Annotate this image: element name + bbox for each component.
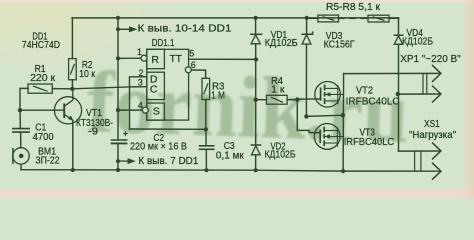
junction node R4 left	[254, 98, 258, 102]
arrowhead pin7	[128, 158, 136, 164]
wire VD1 branch upper	[255, 18, 257, 34]
junction node top rail / VD3	[305, 16, 309, 20]
wire pin 6 to R3	[192, 70, 206, 78]
flip-flop DD1.1 box	[147, 49, 189, 120]
wire top supply rail	[72, 17, 399, 19]
wire VD3 lower lead to mid node	[305, 44, 307, 116]
wire R2 top lead from rail corner	[71, 18, 73, 59]
wire under box to R3/C3 node	[130, 128, 206, 130]
wire R5 box1 left lead	[307, 17, 318, 19]
wire VT3 gate path	[297, 100, 320, 133]
junction node base	[18, 108, 22, 112]
wire drain-source common vertical	[342, 74, 345, 172]
junction node XP1 bottom / VD4	[396, 92, 400, 96]
junction node rail C3	[204, 168, 208, 172]
wire pin 5 output	[189, 58, 256, 60]
junction node rail VD2	[254, 168, 258, 172]
junction node pin7 arrow	[116, 159, 120, 163]
svg-text:ЗП-22: ЗП-22	[35, 156, 59, 167]
svg-text:1 к: 1 к	[271, 85, 285, 96]
wire C1 top lead	[19, 110, 21, 128]
junction node zener bottom	[304, 114, 308, 118]
wire BM1 bottom lead	[20, 164, 22, 170]
svg-text:4: 4	[138, 100, 143, 110]
wire R5 box2 right lead	[389, 17, 399, 19]
connector XS1 bars	[414, 151, 416, 172]
connector XS1 arrow bottom	[432, 163, 441, 180]
zener VD3	[301, 31, 312, 34]
svg-text:-9: -9	[88, 127, 98, 138]
svg-text:0,1 мк: 0,1 мк	[216, 151, 244, 162]
microphone BM1	[13, 148, 29, 164]
svg-text:220 мк × 16 В: 220 мк × 16 В	[130, 142, 187, 153]
wire XP1 top pin	[344, 72, 441, 74]
capacitor C1	[12, 128, 30, 130]
wire XS1 lower pin	[343, 170, 440, 172]
svg-text:КД102Б: КД102Б	[402, 37, 433, 48]
svg-text:TT: TT	[170, 53, 183, 65]
svg-text:2: 2	[139, 68, 144, 78]
junction node rail VT3	[341, 169, 345, 173]
svg-text:ХР1 "~220 В": ХР1 "~220 В"	[400, 54, 461, 65]
wire R4 right lead	[287, 99, 297, 101]
svg-text:IRFBC40LC: IRFBC40LC	[346, 97, 400, 108]
arrowhead 10-14	[129, 26, 137, 32]
junction node pin4 stub	[116, 108, 120, 112]
svg-text:10 к: 10 к	[79, 69, 96, 80]
svg-text:C: C	[150, 84, 158, 96]
capacitor C3	[199, 145, 215, 147]
svg-text:R5-R8 5,1 к: R5-R8 5,1 к	[326, 2, 381, 13]
wire C3 to ground rail	[205, 149, 207, 170]
svg-text:74HC74D: 74HC74D	[22, 40, 60, 51]
junction node collector	[70, 87, 74, 91]
svg-text:6: 6	[191, 60, 196, 70]
resistor R4	[267, 95, 288, 104]
resistor R2	[69, 59, 77, 80]
connector XP1 bars	[422, 74, 424, 95]
wire pin 2 jog	[130, 77, 147, 129]
junction node pin1 stub	[116, 56, 120, 60]
wire ground rail	[21, 170, 343, 171]
wire XS1 top pin	[399, 150, 441, 152]
wire VD4 top lead from rail corner	[398, 18, 400, 35]
junction node R3 C3	[204, 127, 208, 131]
diode VD1	[250, 33, 262, 35]
svg-text:К выв. 7 DD1: К выв. 7 DD1	[138, 156, 198, 167]
svg-text:VT2: VT2	[356, 86, 373, 97]
resistor R5-R8 box 2	[368, 15, 389, 22]
svg-text:К выв. 10-14 DD1: К выв. 10-14 DD1	[138, 24, 232, 35]
wire emitter to ground rail	[72, 120, 74, 170]
svg-text:"Нагрузка": "Нагрузка"	[409, 130, 456, 141]
svg-text:КД102Б: КД102Б	[265, 150, 296, 161]
pin 6 inversion circle	[185, 67, 191, 73]
svg-text:220 к: 220 к	[30, 73, 56, 84]
wire pin 1 stub from bus	[118, 57, 141, 59]
wire R2 bottom lead to collector node	[71, 80, 73, 89]
wire arrow stub K vyv 10-14 DD1	[118, 28, 130, 30]
resistor R1	[28, 84, 52, 93]
svg-text:КД102Б: КД102Б	[265, 38, 298, 49]
junction node pin5 / VD1	[254, 57, 258, 61]
transistor VT3 body	[314, 123, 340, 149]
transistor VT1 body	[54, 97, 81, 124]
svg-text:4700: 4700	[33, 132, 54, 143]
wire R3 bottom to node	[205, 100, 207, 130]
wire node to C3	[205, 129, 207, 145]
svg-text:S: S	[153, 106, 160, 118]
wire VD2 to ground rail	[255, 155, 257, 170]
diode VD2	[251, 144, 262, 146]
connector XP1 arrow bottom	[432, 86, 441, 103]
junction node midpoint	[341, 113, 345, 117]
svg-text:КС156Г: КС156Г	[324, 40, 356, 51]
junction node top rail / bus	[116, 16, 120, 20]
wire R1 right lead	[52, 88, 72, 90]
plus mark of C2	[123, 133, 128, 135]
svg-text:1: 1	[137, 47, 142, 57]
wire V+ bus below C2 to ground rail	[117, 143, 119, 170]
pin 4 inversion circle	[142, 107, 148, 113]
diode VD4	[394, 34, 404, 36]
capacitor C2	[111, 139, 128, 141]
wire VD4 bottom vertical	[398, 44, 400, 151]
resistor R5-R8 box 1	[318, 15, 339, 22]
wire base lead	[20, 109, 64, 111]
svg-text:XS1: XS1	[424, 119, 440, 130]
wire XP1 bottom pin	[398, 93, 441, 95]
wire VT2 gate lead	[297, 98, 320, 100]
wire pin 4 stub from bus	[118, 109, 142, 111]
junction node rail bus	[116, 168, 120, 172]
wire R4 left lead	[256, 99, 267, 101]
svg-text:R: R	[151, 54, 159, 66]
wire VD3 upper lead	[306, 18, 308, 36]
junction node arrow 10-14	[116, 27, 120, 31]
svg-text:1 М: 1 М	[211, 91, 225, 102]
junction node R4 right gates	[295, 97, 299, 101]
svg-text:IRFBC40LC: IRFBC40LC	[344, 137, 395, 148]
connector XS1 arrow top	[432, 142, 441, 159]
svg-text:DD1.1: DD1.1	[152, 38, 175, 49]
wire C1 bottom lead to microphone	[20, 132, 22, 148]
resistor R3	[202, 78, 210, 99]
wire collector to pin 3	[72, 87, 146, 89]
transistor VT2 body	[315, 82, 341, 108]
junction node rail emitter	[71, 168, 75, 172]
junction node top rail / VD1	[254, 16, 258, 20]
wire VD1 to VD2 vertical	[255, 44, 257, 145]
wire pin7 arrow stub	[118, 160, 128, 162]
pin 1 inversion circle	[141, 55, 147, 61]
svg-text:3: 3	[138, 78, 143, 88]
wire midpoint link	[306, 115, 343, 116]
dashed link R5-R8	[339, 17, 369, 19]
wire R1 left lead down to base node	[20, 88, 28, 110]
edge strips	[0, 0, 474, 3]
connector XP1 arrow top	[432, 65, 441, 82]
svg-text:5: 5	[189, 49, 194, 59]
wire V+ bus x=118 from rail to C2	[117, 18, 119, 140]
